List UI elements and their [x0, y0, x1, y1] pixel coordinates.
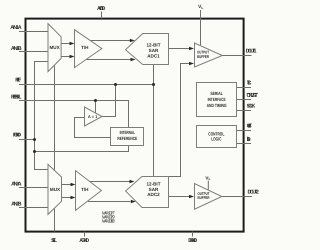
- svg-text:SCLK: SCLK: [247, 103, 256, 109]
- svg-text:VL: VL: [198, 4, 203, 10]
- svg-text:ADC2: ADC2: [147, 192, 160, 197]
- svg-text:AND TIMING: AND TIMING: [207, 103, 227, 108]
- svg-text:DOUT2: DOUT2: [248, 190, 259, 196]
- svg-text:12-BIT: 12-BIT: [146, 182, 160, 187]
- svg-text:CNVST: CNVST: [247, 93, 259, 99]
- svg-text:U/B: U/B: [247, 124, 252, 130]
- svg-text:ADC1: ADC1: [147, 54, 160, 59]
- svg-text:AGND: AGND: [79, 238, 89, 244]
- svg-text:AVDD: AVDD: [97, 6, 105, 12]
- svg-text:SEL: SEL: [51, 238, 58, 244]
- svg-text:FGND: FGND: [13, 132, 21, 138]
- svg-text:INTERNAL: INTERNAL: [120, 130, 136, 135]
- svg-text:A = 1: A = 1: [88, 114, 98, 119]
- svg-text:S/D: S/D: [247, 137, 251, 143]
- svg-text:REFSEL: REFSEL: [11, 95, 22, 101]
- svg-text:BUFFER: BUFFER: [198, 195, 210, 200]
- svg-text:DOUT1: DOUT1: [246, 48, 257, 54]
- svg-text:DGND: DGND: [188, 238, 197, 244]
- svg-text:REFERENCE: REFERENCE: [117, 136, 137, 141]
- svg-text:AIN1B: AIN1B: [11, 46, 22, 52]
- svg-text:AIN2A: AIN2A: [11, 181, 21, 187]
- svg-text:AIN1A: AIN1A: [10, 25, 21, 31]
- svg-text:REF: REF: [15, 77, 22, 83]
- svg-text:T/H: T/H: [81, 45, 89, 50]
- svg-text:MAX1383: MAX1383: [102, 218, 115, 223]
- svg-text:MUX: MUX: [49, 45, 60, 50]
- svg-text:12-BIT: 12-BIT: [146, 43, 160, 48]
- svg-text:AIN2B: AIN2B: [11, 201, 21, 207]
- svg-text:BUFFER: BUFFER: [197, 54, 209, 59]
- svg-text:VL: VL: [205, 175, 210, 181]
- svg-text:INTERFACE: INTERFACE: [208, 97, 226, 102]
- svg-text:T/H: T/H: [81, 187, 89, 192]
- svg-text:CS: CS: [247, 81, 252, 87]
- svg-text:MUX: MUX: [50, 187, 61, 192]
- svg-text:LOGIC: LOGIC: [211, 137, 222, 142]
- svg-text:SERIAL: SERIAL: [210, 91, 223, 96]
- svg-text:SAR: SAR: [149, 48, 159, 53]
